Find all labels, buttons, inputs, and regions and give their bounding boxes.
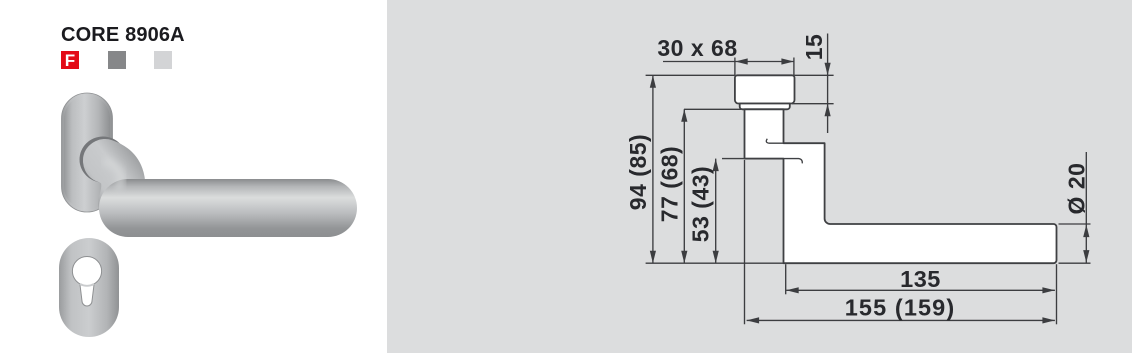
extension line bar bottom right (dia20)	[1059, 262, 1091, 264]
dimension 77 (68)	[681, 109, 687, 263]
svg-text:94 (85): 94 (85)	[625, 134, 651, 210]
neck, crank and bar outline	[745, 109, 1057, 263]
collar face	[83, 141, 122, 179]
svg-text:135: 135	[900, 266, 941, 292]
neck highlight	[107, 162, 121, 186]
lever top fillet line	[766, 139, 824, 143]
swatch light gray	[154, 51, 172, 69]
svg-text:77 (68): 77 (68)	[656, 146, 682, 222]
dimension dia 20	[1083, 152, 1089, 263]
extension line rosette bottom right	[792, 103, 834, 105]
lever bottom fillet line / 53 extension	[722, 159, 802, 164]
handle silhouette white shape	[735, 75, 1057, 263]
bar highlight	[124, 189, 342, 199]
dimension 94 (85)	[650, 75, 656, 263]
rosette flange	[740, 104, 790, 110]
swatch F red	[61, 51, 79, 69]
lever bar	[128, 179, 328, 237]
svg-text:30 x 68: 30 x 68	[657, 35, 737, 61]
rosette inner face	[64, 96, 110, 210]
svg-text:155 (159): 155 (159)	[845, 295, 956, 321]
collar bearing ring	[80, 137, 127, 183]
extension line neck left down to 155 dim	[744, 160, 746, 324]
extension line rosette top (right of rosette)	[795, 74, 834, 76]
svg-text:Ø 20: Ø 20	[1064, 163, 1090, 215]
extension line 30x68 right	[793, 58, 795, 76]
dimension 155 (159)	[747, 317, 1055, 323]
gray drawing panel background	[387, 0, 1132, 353]
svg-text:53 (43): 53 (43)	[688, 166, 714, 242]
extension line neck top (77 dim)	[684, 108, 741, 110]
rosette oval plate	[62, 93, 113, 212]
swatch dark gray	[108, 51, 126, 69]
extension line bar top right (dia20)	[1059, 223, 1091, 225]
dimension 30x68	[663, 58, 794, 64]
dimension 135	[786, 287, 1055, 293]
dimension 15	[825, 34, 831, 134]
extension line bar bottom (left of handle)	[646, 262, 784, 264]
escutcheon oval	[59, 238, 119, 337]
lever neck	[105, 161, 123, 203]
svg-text:15: 15	[801, 34, 827, 61]
extension line rosette top (left of rosette)	[646, 74, 735, 76]
extension line crank left down to 135 dim	[785, 264, 787, 294]
rosette section 30x68	[735, 75, 795, 103]
product title CORE 8906A	[61, 24, 185, 47]
extension line 30x68 left	[734, 58, 736, 76]
euro profile cylinder cutout	[72, 257, 101, 307]
dimension 53 (43)	[713, 159, 719, 264]
extension line bar right end down	[1056, 264, 1058, 324]
keyhole bottom shade	[80, 284, 94, 286]
